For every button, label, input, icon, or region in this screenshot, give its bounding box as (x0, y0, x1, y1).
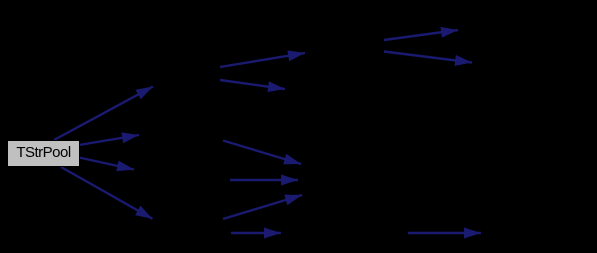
wire edge node11 to node12 (408, 232, 481, 234)
wire edge TStrPool to node3 (79, 135, 139, 145)
wire edge node2 to node6 (220, 53, 305, 67)
wire edge node4 to node10 mid (230, 179, 298, 181)
wire edge node4 to node10 (223, 141, 301, 165)
wire edge node5 to node10 (up) (223, 195, 302, 219)
wire edge node6 to node9 (384, 52, 472, 63)
wire edge TStrPool to node4 (79, 158, 134, 170)
wire edge TStrPool to node2 (up) (54, 87, 153, 141)
wire edge node2 to node7 (220, 80, 285, 89)
wire edge TStrPool to node5 (down) (61, 167, 153, 219)
node TStrPool (8, 141, 80, 167)
svg-text:TStrPool: TStrPool (16, 144, 71, 161)
wire edge node6 to node8 (384, 30, 458, 40)
wire edge node5 to node11 (231, 232, 281, 234)
